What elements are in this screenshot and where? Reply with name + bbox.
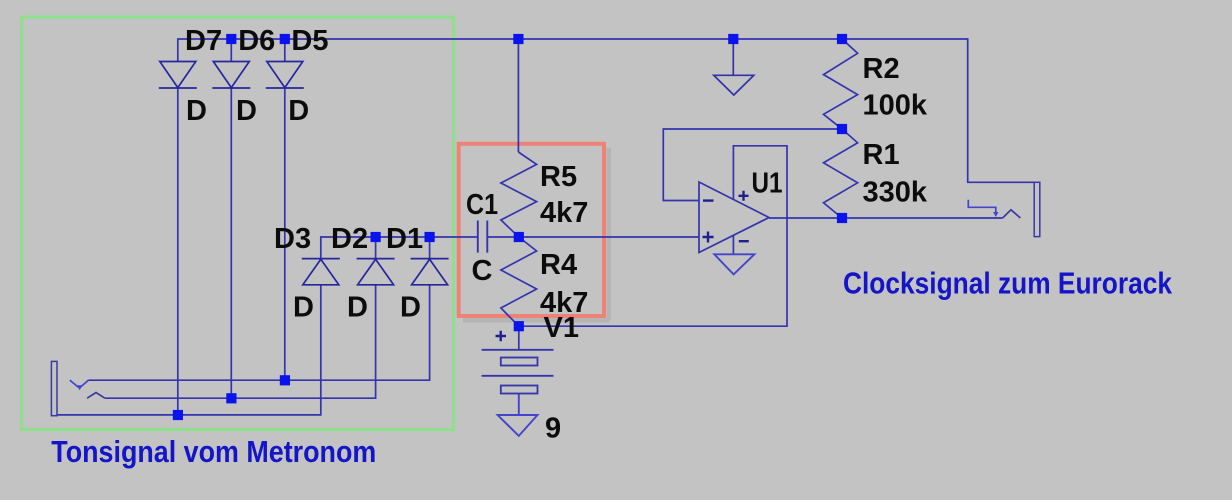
op-amp U1 triangle (699, 182, 769, 253)
ground under battery V1 (498, 394, 538, 436)
ground under top rail (714, 39, 754, 95)
svg-text:9: 9 (545, 413, 561, 445)
jack J2 right sleeve bar (1034, 182, 1040, 236)
svg-text:D: D (236, 95, 257, 127)
node R2-R1 junction (837, 124, 847, 134)
resistor R2 body (824, 39, 858, 129)
svg-text:D: D (186, 95, 207, 127)
svg-text:D: D (293, 292, 314, 324)
svg-text:D: D (288, 95, 309, 127)
wire D5 anode to rail (284, 39, 286, 62)
node R1-output (837, 213, 847, 223)
svg-text:330k: 330k (863, 177, 928, 209)
jack J2 tip spring contact (1003, 210, 1021, 218)
green annotation box (22, 17, 454, 429)
diode D5 (266, 62, 304, 89)
wire D5 cathode down to switch net (284, 88, 286, 380)
svg-text:C: C (472, 255, 493, 287)
svg-text:R1: R1 (863, 139, 900, 171)
svg-text:C1: C1 (466, 189, 498, 221)
wire battery top lead (518, 326, 520, 350)
node V1 positive (514, 321, 524, 331)
svg-text:R2: R2 (863, 53, 900, 85)
op-amp U1 noninverting input plus sign (703, 232, 714, 243)
wire D6 cathode down to tip net (230, 88, 232, 398)
red annotation box shadow (463, 148, 609, 320)
wire tip net jack to D2 anode (105, 285, 376, 398)
diode D3 (302, 259, 340, 285)
resistor R4 body (501, 237, 537, 326)
node sleeve-D7 (173, 410, 183, 420)
capacitor C1 plates (478, 221, 488, 253)
op-amp U1 inverting input minus sign (703, 199, 714, 201)
svg-text:U1: U1 (752, 167, 783, 199)
node C1-R5-R4 (514, 232, 524, 242)
svg-text:D3: D3 (274, 223, 311, 255)
wire lower diode row D3-D2-D1 to C1 left plate (321, 237, 478, 259)
svg-text:D7: D7 (185, 25, 222, 57)
wire feedback opamp inverting input to R1/R2 junction (663, 129, 842, 201)
svg-text:D1: D1 (386, 223, 423, 255)
wire D7 cathode down to sleeve net (177, 88, 179, 415)
svg-text:D: D (347, 292, 368, 324)
wire sleeve net jack to D3 anode (57, 285, 321, 415)
node tip-D6 (226, 393, 236, 403)
svg-text:D2: D2 (331, 223, 368, 255)
jack J1 tip spring contact (87, 393, 105, 399)
svg-text:R5: R5 (540, 161, 577, 193)
diode D2 (357, 259, 395, 285)
node D2-row (371, 232, 381, 242)
wire switch net jack to D1 anode (88, 285, 429, 380)
svg-text:Clocksignal zum Eurorack: Clocksignal zum Eurorack (843, 266, 1173, 301)
node rail-D6 (226, 34, 236, 44)
node rail-R2 (837, 34, 847, 44)
svg-text:Tonsignal vom Metronom: Tonsignal vom Metronom (51, 434, 376, 469)
node rail-D5 (280, 34, 290, 44)
wire D2 to row (375, 237, 377, 259)
node rail-ground (728, 34, 738, 44)
jack J1 switch contact with arrow (70, 380, 89, 390)
svg-text:D: D (400, 292, 421, 324)
op-amp U1 V- supply pin minus sign (739, 240, 749, 242)
diode D1 (411, 259, 449, 285)
red annotation box (459, 144, 604, 316)
wire C1 right plate to op-amp noninverting input (487, 236, 699, 238)
op-amp U1 V- pin wire to ground (732, 236, 734, 254)
battery V1 (482, 350, 554, 394)
jack J2 switch contact with arrow (968, 200, 998, 217)
wire top rail from D7 to right side down to jack sleeve (178, 39, 1034, 182)
diode D6 (212, 62, 250, 89)
node D1-row (425, 232, 435, 242)
wire output opamp to R1 bottom and jack tip (769, 217, 1003, 219)
node rail-R5 (513, 34, 523, 44)
svg-text:100k: 100k (863, 90, 928, 122)
svg-text:D6: D6 (238, 25, 275, 57)
svg-text:V1: V1 (544, 312, 579, 344)
svg-text:4k7: 4k7 (540, 197, 588, 229)
resistor R5 body (501, 152, 537, 237)
wire R5 top lead to rail (517, 39, 519, 152)
wire D6 anode to rail (230, 39, 232, 62)
wire opamp V+ pin to battery positive rail (519, 146, 787, 326)
diode D7 (159, 62, 197, 89)
op-amp U1 V+ supply pin and plus sign (739, 191, 749, 201)
wire D1 to row (429, 237, 431, 259)
jack J1 left sleeve bar (51, 361, 57, 415)
svg-text:D5: D5 (291, 25, 328, 57)
svg-text:R4: R4 (540, 249, 577, 281)
ground under op-amp (714, 254, 754, 274)
battery V1 plus sign (496, 331, 507, 342)
node switch-D5 (280, 375, 290, 385)
resistor R1 body (824, 129, 858, 218)
